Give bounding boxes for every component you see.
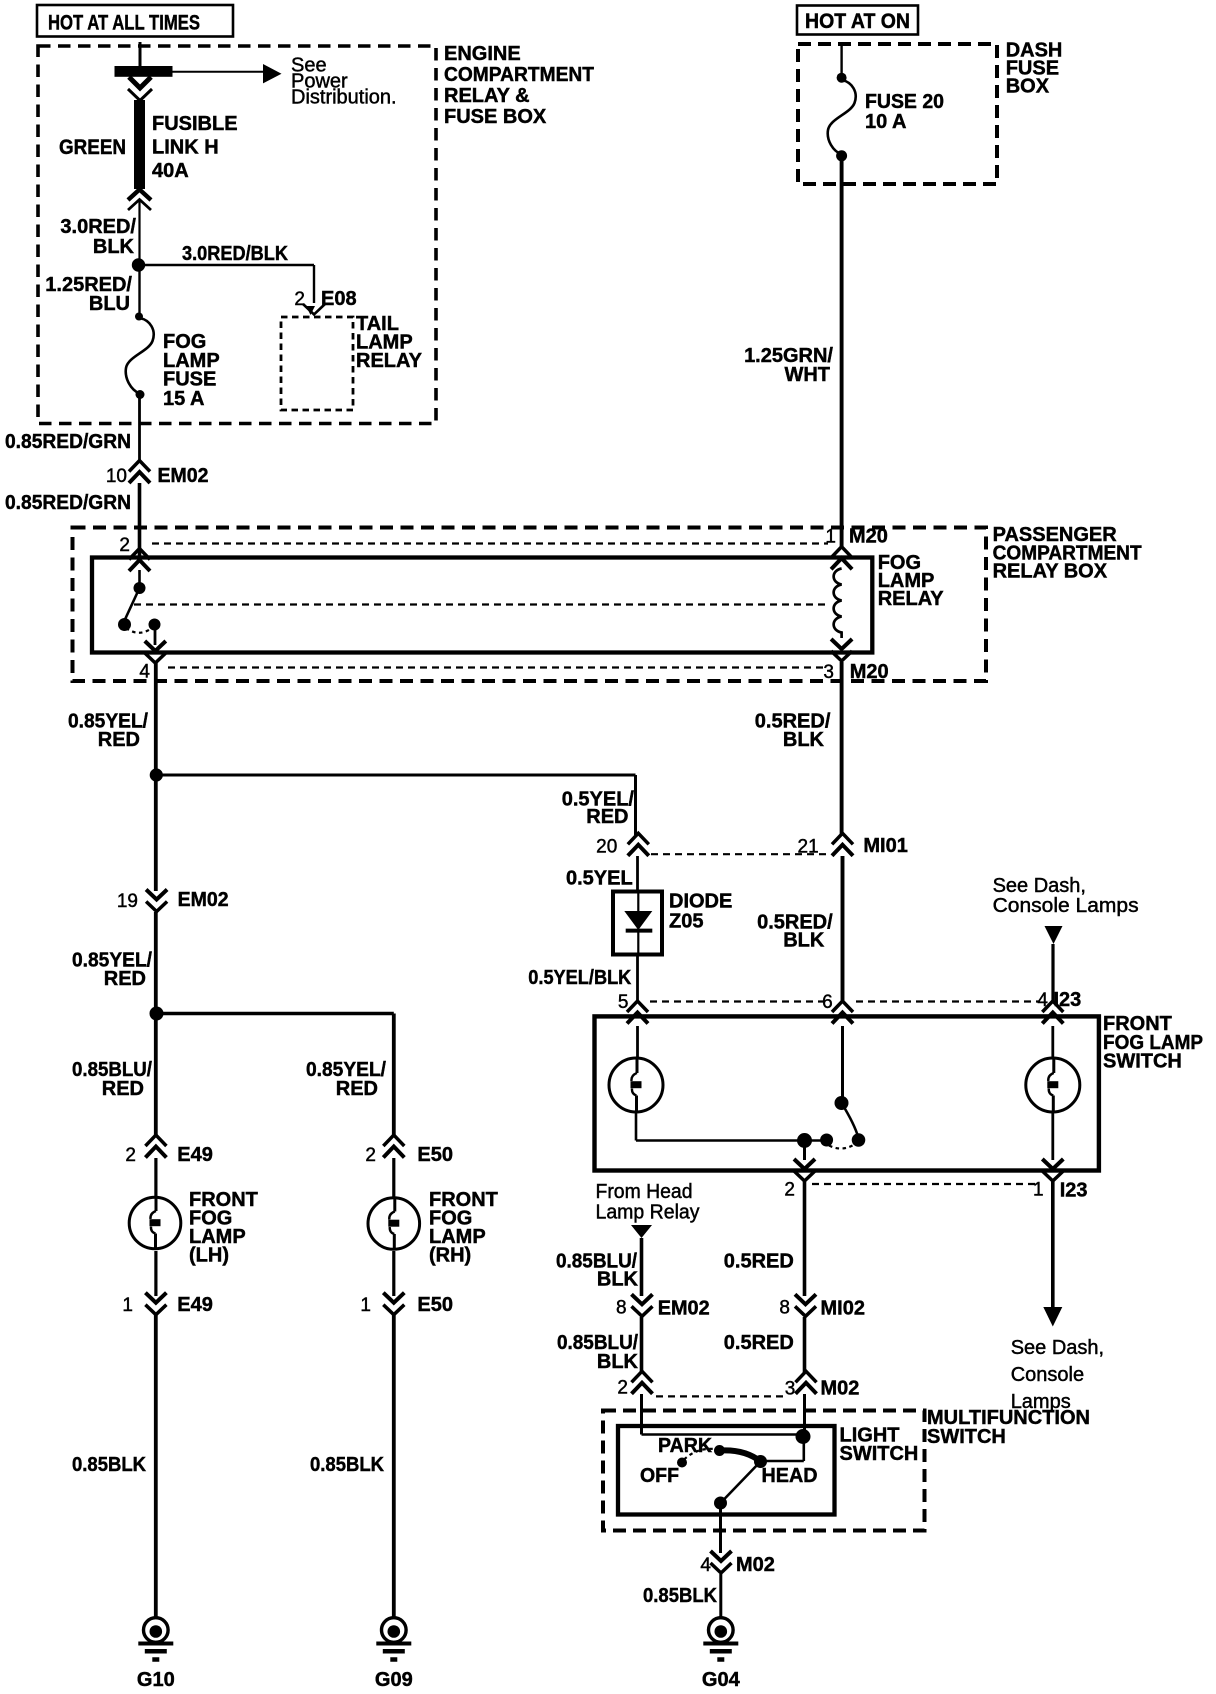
wire M02 4 to ground G04 bbox=[719, 1574, 722, 1617]
svg-text:4: 4 bbox=[139, 662, 150, 683]
svg-text:From Head: From Head bbox=[596, 1181, 693, 1203]
connector EM02 pin 19 bbox=[146, 890, 167, 900]
svg-text:10: 10 bbox=[106, 466, 127, 487]
connector MI02 pin 8 bbox=[795, 1294, 816, 1304]
wire E50 to RH lamp bbox=[392, 1158, 395, 1197]
fog lamp relay box (solid) bbox=[92, 558, 872, 653]
svg-text:ENGINE: ENGINE bbox=[444, 43, 521, 65]
relay coil bbox=[834, 569, 842, 639]
label ENGINE COMPARTMENT RELAY & FUSE BOX bbox=[444, 43, 594, 128]
connector dashed link pins 4-3 bbox=[168, 666, 824, 668]
switch indicator lamp (right) wire bbox=[1051, 1026, 1054, 1057]
connector MI01 pin 20 bbox=[628, 833, 649, 844]
svg-text:4: 4 bbox=[1037, 990, 1048, 1011]
relay contact arm (open position) bbox=[125, 588, 140, 621]
wire junction to RH lamp branch bbox=[157, 1012, 394, 1016]
svg-text:OFF: OFF bbox=[640, 1465, 679, 1487]
relay pin 1 entry chevrons bbox=[831, 547, 852, 558]
svg-text:RED: RED bbox=[104, 968, 146, 990]
svg-text:SWITCH: SWITCH bbox=[927, 1426, 1006, 1448]
label MULTIFUNCTION SWITCH bbox=[927, 1407, 1090, 1448]
svg-text:LINK H: LINK H bbox=[152, 137, 219, 159]
light switch common node dot bbox=[796, 1429, 811, 1444]
svg-text:EM02: EM02 bbox=[178, 889, 229, 911]
svg-text:8: 8 bbox=[779, 1298, 790, 1319]
svg-text:HOT AT ON: HOT AT ON bbox=[805, 10, 910, 33]
arrow to console lamps (down) bbox=[1043, 1307, 1062, 1327]
front fog lamp RH bbox=[368, 1198, 420, 1250]
svg-text:RED: RED bbox=[98, 729, 140, 751]
wire diode to switch pin 5 bbox=[636, 955, 639, 1004]
wire into fuse 20 bbox=[840, 46, 842, 78]
svg-text:1: 1 bbox=[360, 1295, 371, 1316]
svg-text:See Dash,: See Dash, bbox=[993, 875, 1086, 897]
wire M02 2 into light switch bbox=[640, 1394, 643, 1435]
wire switch pin2 to MI02 pin 8 bbox=[803, 1182, 807, 1297]
connector below fusible link bbox=[128, 190, 151, 201]
svg-text:1: 1 bbox=[825, 527, 836, 548]
connector E50 pin 2 bbox=[383, 1135, 404, 1146]
svg-text:19: 19 bbox=[117, 891, 138, 912]
svg-text:Console: Console bbox=[1011, 1364, 1084, 1386]
svg-text:21: 21 bbox=[798, 836, 819, 857]
label TAIL LAMP RELAY bbox=[356, 313, 423, 372]
connector at bus bar output (male/female chevrons) bbox=[129, 77, 151, 88]
connector MI01 pin 21 bbox=[832, 833, 853, 844]
relay internal dashed link bbox=[134, 603, 830, 605]
svg-text:EM02: EM02 bbox=[158, 465, 209, 487]
connector 2 E08 bbox=[303, 304, 325, 315]
wire right lamp to pin 1 bbox=[1051, 1113, 1054, 1160]
fusible link H 40A (thick bar) bbox=[134, 100, 145, 189]
wire common node to pin 2 bbox=[803, 1141, 806, 1161]
svg-text:BLK: BLK bbox=[783, 729, 825, 751]
label 0.85YEL/RED (above junction) bbox=[68, 711, 148, 752]
switch pin 4 chevrons bbox=[1042, 1001, 1063, 1012]
power bus bar bbox=[115, 66, 173, 77]
svg-text:BLK: BLK bbox=[597, 1269, 639, 1291]
relay pin 3 exit chevrons bbox=[831, 639, 852, 649]
svg-text:WHT: WHT bbox=[784, 364, 830, 386]
label FRONT FOG LAMP (LH) bbox=[189, 1189, 258, 1267]
svg-text:Lamp Relay: Lamp Relay bbox=[596, 1202, 700, 1224]
svg-text:M02: M02 bbox=[736, 1554, 775, 1576]
wire RH branch down to E50 bbox=[392, 1014, 396, 1137]
wire fuse 20 to relay pin 1 M20 bbox=[840, 156, 844, 548]
note From Head Lamp Relay bbox=[596, 1181, 700, 1224]
connector EM02 pin 8 bbox=[632, 1294, 653, 1304]
wire MI02 to M02 pin 3 bbox=[803, 1317, 807, 1373]
svg-text:G09: G09 bbox=[375, 1669, 413, 1691]
svg-text:DIODE: DIODE bbox=[669, 891, 732, 913]
svg-text:2: 2 bbox=[784, 1180, 795, 1201]
switch travel arc (dashed) bbox=[829, 1146, 853, 1149]
label FRONT FOG LAMP (RH) bbox=[429, 1189, 498, 1267]
relay contact open-end dot bbox=[118, 618, 131, 631]
connector M02 pin 3 bbox=[796, 1371, 817, 1382]
svg-text:BLK: BLK bbox=[783, 930, 825, 952]
svg-text:E49: E49 bbox=[177, 1294, 213, 1316]
wire EM02 19 to lamp junction bbox=[154, 912, 158, 1013]
svg-text:BOX: BOX bbox=[1006, 76, 1050, 98]
svg-text:0.85RED/GRN: 0.85RED/GRN bbox=[5, 492, 131, 514]
wire M02 3 into light switch bbox=[803, 1394, 806, 1434]
svg-text:E50: E50 bbox=[417, 1294, 453, 1316]
svg-text:EM02: EM02 bbox=[658, 1298, 710, 1320]
fuse 20 10A (fuse symbol) bbox=[828, 73, 856, 162]
label FUSIBLE LINK H 40A bbox=[152, 113, 238, 182]
svg-text:Console Lamps: Console Lamps bbox=[993, 895, 1139, 917]
svg-text:M20: M20 bbox=[850, 661, 889, 683]
label 0.5RED/BLK (above MI01) bbox=[755, 711, 831, 752]
arrow from console lamps bbox=[1045, 926, 1063, 1003]
switch connector dashed link 2-1 bbox=[812, 1183, 1040, 1185]
ground G10 bbox=[154, 1616, 157, 1619]
svg-text:(RH): (RH) bbox=[429, 1245, 471, 1267]
svg-text:5: 5 bbox=[618, 992, 629, 1013]
switch closed-position dot bbox=[820, 1134, 833, 1147]
label FOG LAMP RELAY bbox=[878, 552, 945, 610]
connector M02 pin 4 bbox=[711, 1551, 732, 1561]
wire LH lamp to E49 pin 1 bbox=[154, 1251, 157, 1296]
label 1.25GRN/WHT bbox=[744, 345, 833, 386]
wire head lamp relay to EM02 pin 8 bbox=[640, 1238, 644, 1296]
svg-text:FUSIBLE: FUSIBLE bbox=[152, 113, 238, 135]
switch indicator lamp left bbox=[609, 1058, 663, 1112]
wire EM02 8 to M02 pin 2 bbox=[640, 1317, 644, 1373]
svg-text:M20: M20 bbox=[849, 526, 888, 548]
svg-text:E49: E49 bbox=[177, 1144, 213, 1166]
svg-text:0.5YEL: 0.5YEL bbox=[566, 868, 633, 890]
wire junction to tail lamp relay branch bbox=[139, 264, 315, 267]
svg-text:PARK: PARK bbox=[658, 1435, 713, 1457]
svg-text:COMPARTMENT: COMPARTMENT bbox=[444, 64, 594, 86]
svg-text:GREEN: GREEN bbox=[59, 136, 126, 159]
wire lamp to contact rail bbox=[635, 1113, 638, 1141]
svg-text:Distribution.: Distribution. bbox=[291, 87, 397, 109]
svg-text:RELAY &: RELAY & bbox=[444, 85, 530, 107]
label FUSE 20 10 A bbox=[865, 91, 944, 133]
OFF travel arc (dashed) bbox=[684, 1449, 715, 1460]
svg-text:2: 2 bbox=[294, 289, 305, 310]
label 0.85BLU/BLK (below EM02 8) bbox=[557, 1332, 639, 1373]
svg-text:G10: G10 bbox=[137, 1669, 175, 1691]
wire from HOT AT ALL TIMES into box bbox=[139, 42, 142, 67]
svg-text:3: 3 bbox=[785, 1379, 796, 1400]
ground G04 bbox=[719, 1616, 722, 1619]
svg-text:RED: RED bbox=[586, 806, 628, 828]
svg-text:10 A: 10 A bbox=[865, 111, 907, 133]
svg-text:BLK: BLK bbox=[93, 236, 135, 258]
svg-text:0.85BLK: 0.85BLK bbox=[643, 1585, 718, 1607]
multifunction switch box (dashed) bbox=[603, 1411, 925, 1531]
svg-text:SWITCH: SWITCH bbox=[840, 1443, 919, 1465]
svg-text:3.0RED/BLK: 3.0RED/BLK bbox=[182, 243, 288, 265]
svg-text:RELAY BOX: RELAY BOX bbox=[993, 561, 1108, 583]
wire E49 to LH lamp bbox=[154, 1158, 157, 1196]
note See Dash, Console Lamps (top) bbox=[993, 875, 1139, 917]
note See Dash, Console Lamps (bottom) bbox=[1011, 1337, 1104, 1413]
dash fuse box (dashed) bbox=[798, 44, 997, 184]
connector dashed link M02 2-3 bbox=[656, 1395, 788, 1397]
switch arm to pivot bbox=[721, 1462, 761, 1504]
wire pin 6 to switch arm pivot bbox=[841, 1026, 844, 1101]
junction node to diode branch bbox=[150, 768, 163, 781]
label LIGHT SWITCH bbox=[840, 1425, 919, 1466]
svg-text:RELAY: RELAY bbox=[878, 588, 945, 610]
wire 20 to diode bbox=[636, 856, 639, 893]
PARK contact dot bbox=[714, 1445, 725, 1456]
wire fuse to EM02 pin 10 bbox=[138, 394, 141, 461]
label DASH FUSE BOX bbox=[1006, 40, 1063, 98]
label 1.25RED/BLU bbox=[45, 274, 132, 315]
svg-text:6: 6 bbox=[822, 992, 833, 1013]
tail lamp relay box (dashed) bbox=[281, 317, 353, 410]
wire to connector 20 bbox=[634, 775, 637, 835]
wire RH lamp to E50 pin 1 bbox=[392, 1251, 395, 1296]
svg-text:15 A: 15 A bbox=[163, 388, 205, 410]
ground G09 bbox=[392, 1616, 395, 1619]
svg-text:BLK: BLK bbox=[597, 1351, 639, 1373]
svg-text:20: 20 bbox=[596, 836, 617, 857]
label DIODE Z05 bbox=[669, 891, 732, 933]
svg-text:I23: I23 bbox=[1060, 1180, 1088, 1202]
svg-text:RED: RED bbox=[336, 1078, 378, 1100]
svg-text:MI02: MI02 bbox=[821, 1298, 865, 1320]
connector dashed link 20-21 bbox=[651, 853, 828, 855]
svg-text:8: 8 bbox=[616, 1298, 627, 1319]
wire junction to diode column bbox=[156, 774, 635, 777]
switch arm (to off position) bbox=[842, 1103, 859, 1138]
wire relay pin 3 to MI01 pin 21 bbox=[840, 662, 844, 835]
svg-text:M02: M02 bbox=[821, 1378, 860, 1400]
wire pivot to M02 pin 4 bbox=[719, 1503, 722, 1553]
connector E49 pin 1 bbox=[145, 1293, 166, 1303]
switch connector dashed link 5-6 bbox=[650, 1000, 827, 1002]
diode Z05 bbox=[613, 892, 662, 955]
svg-text:0.5RED: 0.5RED bbox=[724, 1332, 794, 1354]
svg-text:FUSE BOX: FUSE BOX bbox=[444, 106, 547, 128]
svg-text:1: 1 bbox=[1033, 1180, 1044, 1201]
switch wiper (thick arc PARK-HEAD) bbox=[720, 1450, 761, 1461]
svg-text:FUSE 20: FUSE 20 bbox=[865, 91, 944, 113]
wire relay pin 4 to junction bbox=[154, 663, 158, 775]
connector M02 pin 2 bbox=[632, 1371, 653, 1382]
switch pin 6 chevrons bbox=[832, 1001, 853, 1012]
label 0.85YEL/RED (above EM02 19) bbox=[72, 950, 152, 991]
svg-text:0.5YEL/BLK: 0.5YEL/BLK bbox=[528, 967, 632, 989]
svg-text:RELAY: RELAY bbox=[356, 350, 423, 372]
svg-text:4: 4 bbox=[700, 1555, 711, 1576]
svg-text:See Dash,: See Dash, bbox=[1011, 1337, 1104, 1359]
svg-text:0.5RED: 0.5RED bbox=[724, 1251, 794, 1273]
svg-text:2: 2 bbox=[617, 1378, 628, 1399]
relay contact travel arc (dashed) bbox=[126, 628, 152, 633]
wire pin2 feed rail bbox=[642, 1433, 799, 1436]
wire MI01 to switch pin 6 bbox=[841, 856, 845, 1003]
svg-text:3: 3 bbox=[823, 662, 834, 683]
wire EM02 to relay pin 2 bbox=[138, 483, 142, 563]
svg-text:0.85BLK: 0.85BLK bbox=[310, 1454, 385, 1476]
switch indicator lamp (left) wire bbox=[636, 1026, 639, 1057]
switch common node dot bbox=[797, 1133, 812, 1148]
svg-text:2: 2 bbox=[365, 1145, 376, 1166]
wire junction down to E49 bbox=[154, 1014, 158, 1137]
light switch box (solid) bbox=[618, 1426, 835, 1515]
label PASSENGER COMPARTMENT RELAY BOX bbox=[993, 524, 1142, 583]
relay pin 4 exit chevrons bbox=[145, 641, 166, 651]
relay pin 2 entry chevrons bbox=[129, 549, 150, 560]
label FRONT FOG LAMP SWITCH bbox=[1103, 1013, 1203, 1073]
label 0.85YEL/RED (RH branch) bbox=[306, 1059, 386, 1100]
svg-text:1: 1 bbox=[122, 1295, 133, 1316]
relay contact closed-position dot bbox=[149, 619, 161, 631]
svg-text:G04: G04 bbox=[702, 1669, 741, 1691]
wire E49 pin1 to ground G10 bbox=[154, 1315, 158, 1617]
svg-text:HOT AT ALL TIMES: HOT AT ALL TIMES bbox=[48, 12, 200, 35]
label 0.5YEL/RED bbox=[562, 789, 635, 829]
arrow from head lamp relay bbox=[631, 1225, 652, 1238]
svg-text:SWITCH: SWITCH bbox=[1103, 1051, 1182, 1073]
lamp feed junction node bbox=[150, 1007, 164, 1021]
switch pin 2 exit chevrons bbox=[794, 1159, 815, 1169]
switch arm pivot dot bbox=[835, 1096, 849, 1110]
wire arrow to power distribution bbox=[172, 64, 282, 83]
label 3.0RED/BLK (vertical run) bbox=[60, 216, 136, 258]
wire pin 1 to console lamps arrow bbox=[1051, 1182, 1055, 1309]
switch pivot dot bbox=[714, 1497, 727, 1510]
connector E49 pin 2 bbox=[145, 1135, 166, 1146]
svg-text:(LH): (LH) bbox=[189, 1245, 229, 1267]
switch pin 1 exit chevrons bbox=[1042, 1159, 1063, 1169]
connector E50 pin 1 bbox=[383, 1293, 404, 1303]
junction node (3.0RED/BLK split) bbox=[132, 258, 145, 271]
svg-text:MI01: MI01 bbox=[863, 835, 907, 857]
svg-text:40A: 40A bbox=[152, 160, 189, 182]
svg-text:I23: I23 bbox=[1054, 989, 1082, 1011]
svg-text:0.85RED/GRN: 0.85RED/GRN bbox=[5, 431, 131, 453]
svg-text:2: 2 bbox=[119, 535, 130, 556]
connector dashed link pins 2-1 bbox=[152, 542, 828, 544]
relay contact pivot dot bbox=[134, 582, 146, 594]
note See Power Distribution. bbox=[291, 55, 397, 109]
wire junction down to EM02 pin 19 bbox=[154, 775, 158, 891]
wire node to HEAD contact bbox=[802, 1437, 805, 1462]
relay switch contact: wire to pivot bbox=[138, 570, 141, 586]
label 0.85BLU/RED bbox=[72, 1059, 152, 1100]
wire contact to relay pin 4 bbox=[154, 625, 157, 646]
switch indicator lamp right bbox=[1026, 1058, 1080, 1112]
label box HOT AT ALL TIMES bbox=[37, 5, 233, 37]
svg-text:E50: E50 bbox=[417, 1144, 453, 1166]
wire E50 pin1 to ground G09 bbox=[392, 1315, 396, 1617]
front fog lamp switch box bbox=[595, 1016, 1099, 1170]
label FOG LAMP FUSE 15 A bbox=[163, 331, 220, 410]
switch connector dashed link 6-4 bbox=[856, 1000, 1040, 1002]
label box HOT AT ON bbox=[797, 6, 918, 35]
label 0.5RED/BLK (below MI01) bbox=[757, 912, 833, 952]
svg-text:Z05: Z05 bbox=[669, 911, 703, 933]
label 0.85BLU/BLK (above EM02 8) bbox=[556, 1251, 639, 1291]
svg-text:RED: RED bbox=[102, 1078, 144, 1100]
front fog lamp LH bbox=[129, 1197, 181, 1249]
fog lamp fuse 15A (fuse symbol) bbox=[126, 313, 154, 400]
HEAD contact dot bbox=[754, 1455, 767, 1468]
switch arm open-end dot bbox=[852, 1133, 866, 1147]
wire junction to fog lamp fuse bbox=[138, 265, 140, 317]
svg-text:3.0RED/: 3.0RED/ bbox=[60, 216, 136, 238]
switch pin 5 chevrons bbox=[627, 1001, 648, 1012]
svg-text:HEAD: HEAD bbox=[762, 1465, 818, 1487]
OFF position dot bbox=[677, 1458, 687, 1468]
svg-text:E08: E08 bbox=[321, 288, 357, 310]
engine compartment relay & fuse box (dashed) bbox=[38, 46, 436, 424]
connector EM02 pin 10 bbox=[129, 461, 150, 472]
wire fusible link to junction bbox=[138, 200, 140, 265]
svg-text:2: 2 bbox=[125, 1145, 136, 1166]
passenger compartment relay box (dashed) bbox=[73, 528, 987, 682]
svg-text:BLU: BLU bbox=[89, 293, 130, 315]
svg-text:0.85BLK: 0.85BLK bbox=[72, 1454, 147, 1476]
